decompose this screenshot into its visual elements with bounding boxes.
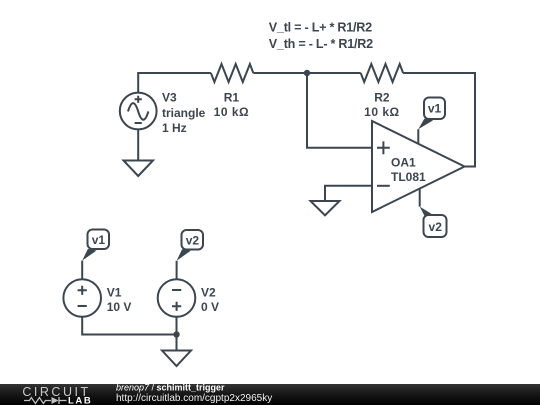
svg-text:triangle: triangle bbox=[162, 106, 206, 120]
svg-text:v2: v2 bbox=[186, 233, 200, 247]
svg-text:OA1: OA1 bbox=[391, 156, 416, 170]
svg-text:1 Hz: 1 Hz bbox=[162, 121, 187, 135]
svg-text:V_th = - L- * R1/R2: V_th = - L- * R1/R2 bbox=[269, 37, 373, 51]
svg-text:LAB: LAB bbox=[68, 396, 92, 405]
svg-text:brenop7 / schimitt_trigger: brenop7 / schimitt_trigger bbox=[116, 383, 225, 393]
svg-text:10 kΩ: 10 kΩ bbox=[364, 105, 399, 119]
svg-text:10 V: 10 V bbox=[107, 300, 132, 314]
svg-text:V1: V1 bbox=[107, 286, 122, 300]
svg-text:0 V: 0 V bbox=[201, 300, 219, 314]
svg-text:v1: v1 bbox=[92, 233, 106, 247]
svg-text:http://circuitlab.com/cgptp2x2: http://circuitlab.com/cgptp2x2965ky bbox=[116, 393, 272, 404]
svg-text:V3: V3 bbox=[162, 91, 177, 105]
svg-text:V2: V2 bbox=[201, 286, 216, 300]
svg-text:10 kΩ: 10 kΩ bbox=[214, 105, 249, 119]
svg-text:V_tl = - L+ * R1/R2: V_tl = - L+ * R1/R2 bbox=[269, 20, 372, 34]
svg-text:v2: v2 bbox=[429, 220, 443, 234]
svg-text:R1: R1 bbox=[224, 90, 240, 104]
svg-text:v1: v1 bbox=[428, 102, 442, 116]
svg-text:TL081: TL081 bbox=[391, 170, 426, 184]
svg-text:R2: R2 bbox=[374, 90, 390, 104]
